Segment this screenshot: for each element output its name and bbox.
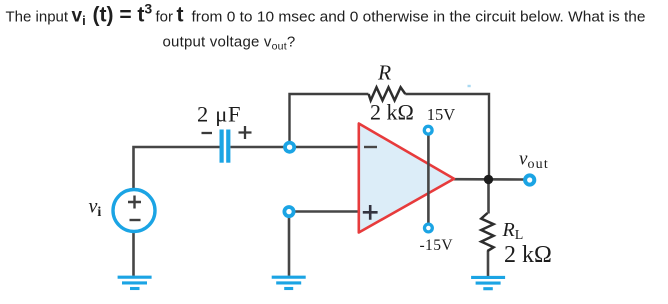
source vi plus sign [128, 196, 141, 209]
svg-text:15V: 15V [427, 105, 456, 124]
ground (under vi source) [118, 277, 152, 288]
wire: op-amp output [452, 178, 524, 181]
wire: node B to op-amp non-inverting input [294, 210, 359, 213]
wire: output node down to RL [487, 179, 490, 214]
stray scan speck [468, 85, 471, 87]
node B open terminal (non-inverting input junction) [284, 207, 293, 216]
wire: vi source bottom to ground [132, 232, 135, 276]
wire: capacitor row left (vi top corner to left cap plate) [134, 147, 220, 190]
problem statement line 1 [6, 1, 646, 29]
node A open terminal (inverting input junction) [285, 143, 294, 152]
ground (under node B) [272, 277, 306, 288]
op-amp U1 triangle [359, 124, 454, 233]
svg-text:for: for [156, 9, 174, 26]
output terminal vout [525, 175, 534, 184]
wire: node B down to ground [288, 216, 291, 276]
capacitor minus polarity mark [202, 132, 213, 134]
wire: supply rail vertical through op-amp [427, 136, 430, 224]
svg-text:2 μF: 2 μF [197, 102, 241, 127]
capacitor plus polarity mark [239, 126, 252, 139]
svg-text:2 kΩ: 2 kΩ [370, 100, 414, 125]
capacitor C1 right plate [226, 130, 230, 163]
svg-text:from 0 to 10 msec and 0 otherw: from 0 to 10 msec and 0 otherwise in the… [192, 9, 646, 26]
wire: RL bottom to ground [487, 251, 490, 277]
svg-text:2 kΩ: 2 kΩ [504, 242, 552, 268]
ground (under RL) [471, 277, 505, 288]
source vi minus sign [130, 219, 141, 221]
-15V supply terminal [425, 224, 433, 232]
wire: node A to op-amp inverting input [294, 146, 359, 149]
source vi circle [113, 190, 155, 232]
wire: feedback loop top (node A up, across resistor R, down to output node) [290, 94, 369, 143]
svg-text:R: R [377, 61, 391, 85]
op-amp inverting input minus sign [364, 146, 377, 148]
op-amp non-inverting input plus sign [363, 205, 378, 220]
resistor RL zigzag [481, 213, 493, 251]
svg-text:-15V: -15V [420, 237, 454, 254]
svg-text:(t) = t3: (t) = t3 [93, 1, 153, 27]
capacitor C1 left plate [220, 130, 224, 163]
output node junction dot [484, 175, 493, 184]
svg-text:t: t [177, 4, 184, 27]
resistor R zigzag [369, 87, 406, 100]
+15V supply terminal [424, 126, 432, 134]
wire: right cap plate to inverting node [231, 146, 286, 149]
svg-text:The input: The input [6, 9, 69, 26]
